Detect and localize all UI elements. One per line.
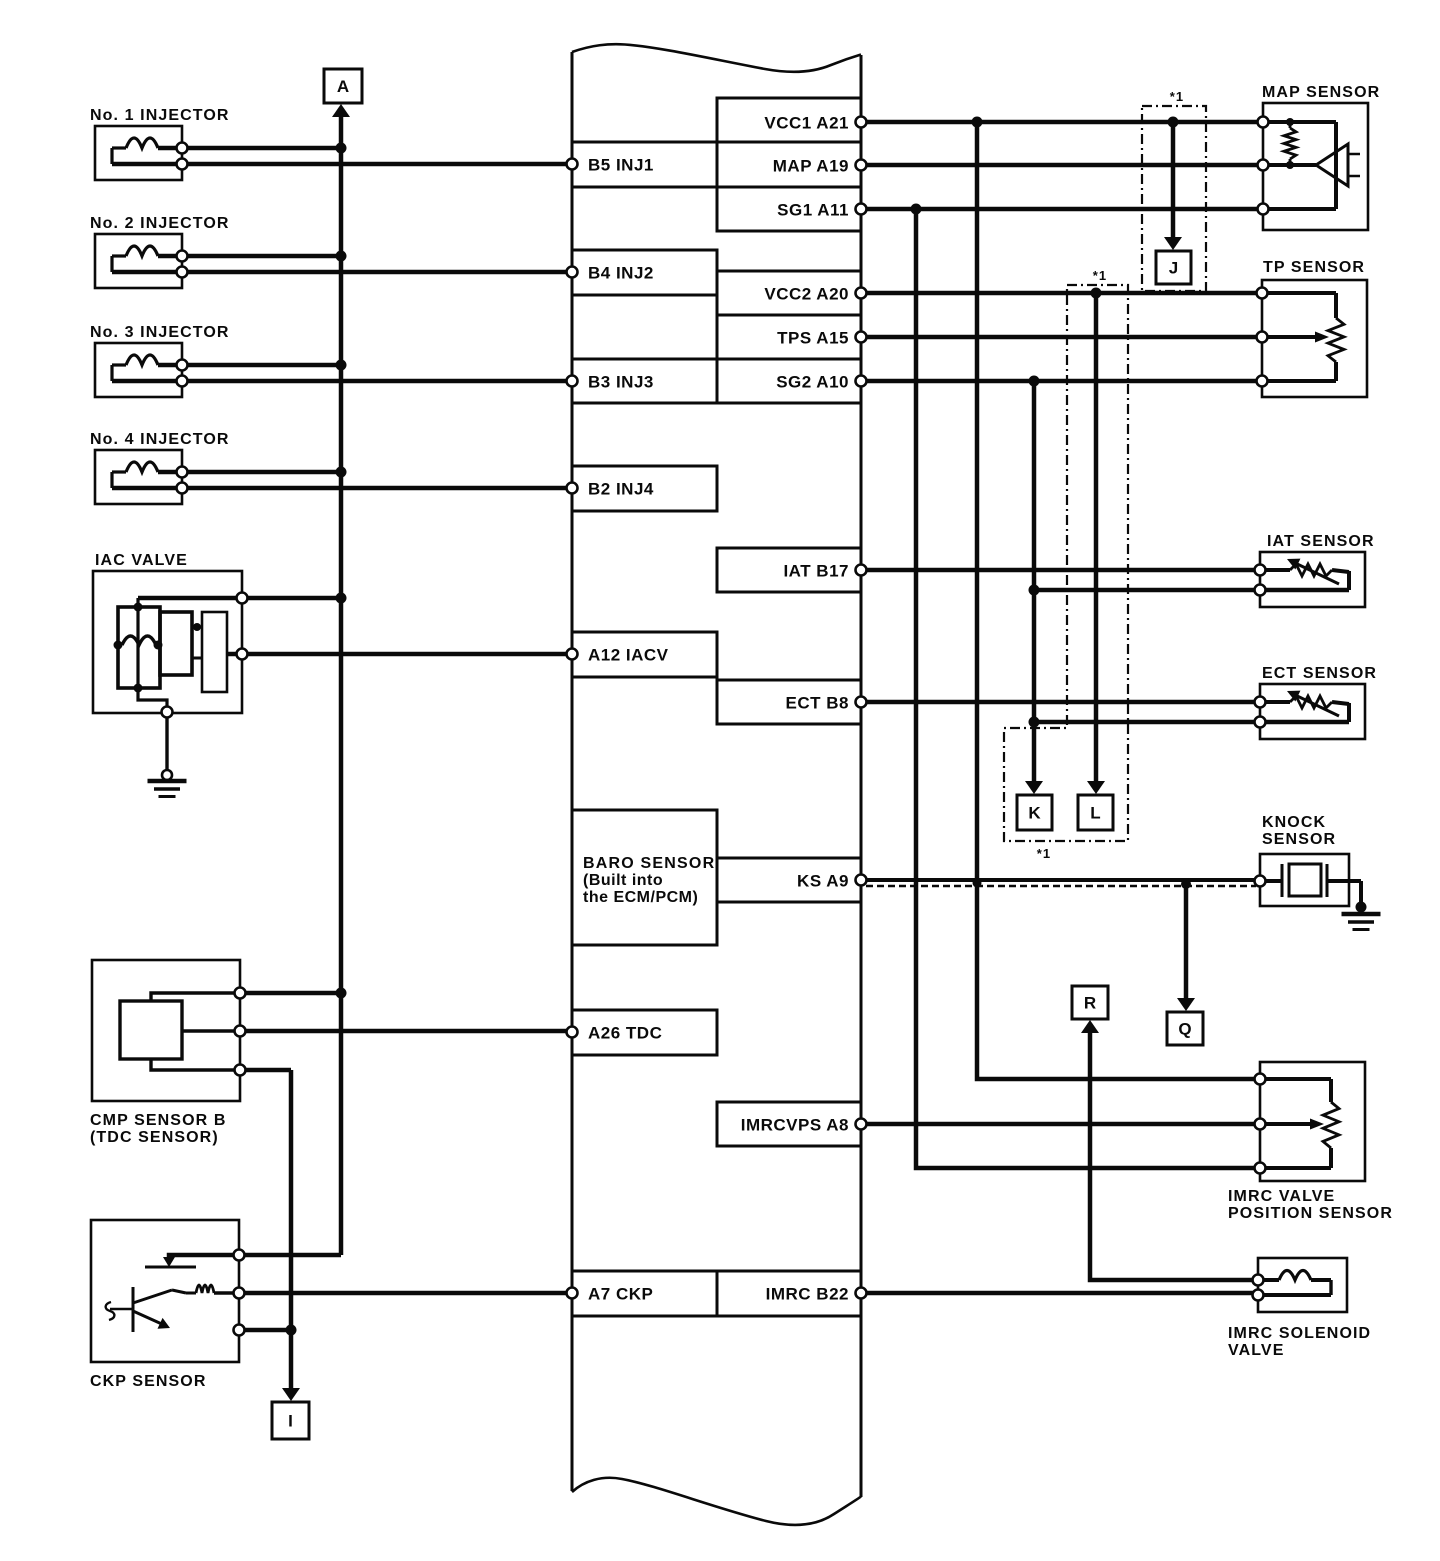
- connector pin cell IMRC B22: [717, 1271, 861, 1316]
- svg-text:BARO SENSOR: BARO SENSOR: [583, 855, 715, 872]
- junction shield / VCC1 drop line crossing: [973, 879, 982, 888]
- connector pin cell MAP A19: [717, 142, 861, 187]
- arrow into node R box: [1081, 1020, 1099, 1033]
- svg-text:No. 2 INJECTOR: No. 2 INJECTOR: [90, 215, 230, 232]
- wire injector 2 ground side to node A bus: [182, 254, 341, 259]
- connector terminal circles left edge: [567, 159, 578, 170]
- amplifier (MAP internal): [1316, 144, 1348, 186]
- svg-text:A7 CKP: A7 CKP: [588, 1285, 653, 1304]
- node I box: [272, 1402, 309, 1439]
- MAP sensor internals: [1266, 120, 1336, 124]
- node A box: [324, 69, 362, 103]
- MAP sensor box: [1263, 103, 1368, 230]
- ground (IAC valve): [162, 770, 172, 780]
- junction injector 3 / node A bus: [336, 360, 347, 371]
- dashed option box *1 (nodes K and L): [1004, 285, 1128, 841]
- arrow into node Q box: [1177, 998, 1195, 1011]
- knock sensor box: [1260, 854, 1349, 906]
- wire SG1 drop to IMRC valve position sensor return: [916, 209, 1255, 1168]
- terminal circles injector 1: [177, 143, 188, 154]
- CKP pickup internals: [169, 1255, 239, 1261]
- svg-text:A26 TDC: A26 TDC: [588, 1024, 662, 1043]
- svg-text:the ECM/PCM): the ECM/PCM): [583, 889, 698, 906]
- node L line (VCC2 feed): [1094, 293, 1099, 783]
- connector pin cell TPS A15: [717, 315, 861, 359]
- svg-text:POSITION SENSOR: POSITION SENSOR: [1228, 1205, 1393, 1222]
- svg-text:K: K: [1028, 804, 1041, 823]
- wire CMP output to pin A26 TDC: [240, 1029, 567, 1034]
- wire injector 1 signal to pin: [112, 162, 567, 167]
- TP terminal circles: [1257, 288, 1268, 299]
- arrow into node K box: [1025, 781, 1043, 794]
- node J line (VCC1 feed): [1171, 122, 1176, 239]
- wire IAT B17 signal: [866, 568, 1255, 573]
- svg-text:IMRCVPS A8: IMRCVPS A8: [741, 1116, 849, 1135]
- svg-text:SENSOR: SENSOR: [1262, 831, 1336, 848]
- svg-text:B4 INJ2: B4 INJ2: [588, 264, 654, 283]
- junction shield / node Q line: [1181, 879, 1191, 889]
- connector pin cell SG1 A11: [717, 187, 861, 231]
- knock sensor piezo internals: [1264, 879, 1282, 883]
- connector pin cell VCC2 A20: [717, 271, 861, 315]
- svg-text:IAT B17: IAT B17: [783, 562, 849, 581]
- svg-text:L: L: [1090, 804, 1100, 823]
- connector pin cell B3 INJ3: [572, 359, 717, 403]
- svg-text:CKP SENSOR: CKP SENSOR: [90, 1373, 207, 1390]
- wire VCC2 A20 to TP sensor: [866, 291, 1257, 296]
- svg-text:A: A: [337, 77, 349, 96]
- wire injector 4 signal to pin: [112, 486, 567, 491]
- connector pin cell IAT B17: [717, 548, 861, 592]
- svg-text:No. 4 INJECTOR: No. 4 INJECTOR: [90, 431, 230, 448]
- IAT sensor thermistor internals: [1265, 568, 1290, 572]
- node R box: [1072, 986, 1108, 1019]
- svg-text:B3 INJ3: B3 INJ3: [588, 373, 654, 392]
- arrow into node I box: [282, 1388, 300, 1401]
- ground (knock sensor): [1356, 902, 1367, 913]
- IMRCVPS potentiometer internals: [1264, 1077, 1331, 1081]
- junction VCC2 / node L line: [1091, 288, 1102, 299]
- junction VCC1 / node J line: [1168, 117, 1179, 128]
- ECT sensor thermistor internals: [1265, 700, 1290, 704]
- node Q box: [1167, 1012, 1203, 1045]
- connector pin cell A7 CKP: [572, 1271, 717, 1316]
- connector pin cell A12 IACV: [572, 632, 717, 677]
- svg-text:Q: Q: [1178, 1020, 1191, 1039]
- ECM/PCM connector band left edge: [571, 52, 574, 1491]
- wire CMP ground to node I line: [240, 1068, 291, 1073]
- wire SG2 A10 to TP sensor: [866, 379, 1257, 384]
- CMP sensor B box: [92, 960, 240, 1101]
- terminal circles injector 3: [177, 360, 188, 371]
- injector No. 2 INJECTOR: [95, 234, 182, 288]
- svg-text:KNOCK: KNOCK: [1262, 814, 1326, 831]
- wire KS A9 (knock signal): [866, 878, 1255, 882]
- wire injector 3 ground side to node A bus: [182, 363, 341, 368]
- ECM/PCM connector band right edge: [860, 55, 863, 1497]
- svg-text:VCC2 A20: VCC2 A20: [764, 285, 849, 304]
- IMRC solenoid valve box: [1258, 1258, 1347, 1312]
- junction IAT return / node K line: [1029, 585, 1040, 596]
- wire CKP top to node A bus corner: [239, 1253, 341, 1258]
- wire IMRCVPS A8 signal: [866, 1122, 1255, 1127]
- wire IAC valve to node A bus: [242, 596, 341, 601]
- connector band torn bottom edge: [572, 1478, 861, 1525]
- svg-text:IMRC VALVE: IMRC VALVE: [1228, 1188, 1335, 1205]
- svg-text:ECT B8: ECT B8: [786, 694, 849, 713]
- svg-text:*1: *1: [1037, 846, 1052, 861]
- wire VCC1 A21 to MAP sensor: [866, 120, 1258, 125]
- svg-text:*1: *1: [1093, 268, 1108, 283]
- wire injector 3 signal to pin: [112, 379, 567, 384]
- terminal circles injector 2: [177, 251, 188, 262]
- node L box: [1078, 795, 1113, 830]
- CKP terminal circles: [234, 1250, 245, 1261]
- arrow into node L box: [1087, 781, 1105, 794]
- wire injector 1 ground side to node A bus: [182, 146, 341, 151]
- junction injector 4 / node A bus: [336, 467, 347, 478]
- connector terminal circles right edge: [856, 117, 867, 128]
- wire ECT B8 signal: [866, 700, 1255, 705]
- wire CKP ground to node I line: [239, 1328, 291, 1333]
- junction injector 2 / node A bus: [336, 251, 347, 262]
- svg-text:KS A9: KS A9: [797, 872, 849, 891]
- CMP sensor element square: [120, 1001, 182, 1059]
- shield wire (knock sensor, dashed): [866, 885, 1256, 887]
- IAC terminal circles: [237, 593, 248, 604]
- IMRCVPS terminal circles: [1255, 1074, 1266, 1085]
- injector No. 3 INJECTOR: [95, 343, 182, 397]
- node K line (sensor ground): [1032, 381, 1037, 783]
- wire injector 4 ground side to node A bus: [182, 470, 341, 475]
- svg-text:MAP SENSOR: MAP SENSOR: [1262, 84, 1380, 101]
- junction injector 1 / node A bus: [336, 143, 347, 154]
- injector No. 1 INJECTOR: [95, 126, 182, 180]
- IMRC solenoid terminal circles: [1253, 1275, 1264, 1286]
- wire VCC1 drop to IMRC valve position sensor: [977, 122, 1255, 1079]
- connector pin cell KS A9: [717, 858, 861, 902]
- junction SG1 / IMRCVPS return: [911, 204, 922, 215]
- junction CKP ground / node I line: [286, 1325, 297, 1336]
- junction ECT return / node K line: [1029, 717, 1040, 728]
- connector pin cell ECT B8: [717, 680, 861, 724]
- terminal circles injector 4: [177, 467, 188, 478]
- svg-text:SG2 A10: SG2 A10: [776, 373, 849, 392]
- svg-text:IAC VALVE: IAC VALVE: [95, 552, 188, 569]
- svg-text:No. 3 INJECTOR: No. 3 INJECTOR: [90, 324, 230, 341]
- node K box: [1017, 795, 1052, 830]
- wire MAP A19 signal: [866, 163, 1258, 168]
- TP sensor box: [1262, 280, 1367, 397]
- svg-text:(Built into: (Built into: [583, 872, 663, 889]
- CMP internals: [151, 993, 240, 1001]
- svg-text:(TDC SENSOR): (TDC SENSOR): [90, 1129, 219, 1146]
- junction VCC1 / IMRCVPS feed: [972, 117, 983, 128]
- svg-text:VALVE: VALVE: [1228, 1342, 1284, 1359]
- svg-text:IMRC SOLENOID: IMRC SOLENOID: [1228, 1325, 1371, 1342]
- svg-text:J: J: [1169, 259, 1178, 278]
- TP potentiometer internals: [1266, 291, 1336, 295]
- resistor (MAP internal): [1289, 122, 1292, 128]
- svg-text:No. 1 INJECTOR: No. 1 INJECTOR: [90, 107, 230, 124]
- wire ECT sensor return to node K line: [1034, 720, 1255, 725]
- arrow into node J box: [1164, 237, 1182, 250]
- svg-text:VCC1 A21: VCC1 A21: [764, 114, 849, 133]
- svg-text:SG1 A11: SG1 A11: [777, 201, 849, 220]
- junction IAC / node A bus: [336, 593, 347, 604]
- IAT sensor box: [1260, 552, 1365, 607]
- IAT sensor terminal circles: [1255, 565, 1266, 576]
- wire IAT sensor return to node K line: [1034, 588, 1255, 593]
- junction SG2 / node K line: [1029, 376, 1040, 387]
- IAC valve outer box: [93, 571, 242, 713]
- IAC valve internals (motor windings): [138, 596, 242, 601]
- connector pin cell IMRCVPS A8: [717, 1102, 861, 1146]
- IAC ground stem: [165, 717, 168, 770]
- BARO sensor block (built into ECM/PCM): [572, 810, 717, 945]
- node R line to IMRC solenoid: [1090, 1031, 1253, 1280]
- svg-text:A12 IACV: A12 IACV: [588, 646, 669, 665]
- connector pin cell A26 TDC: [572, 1010, 717, 1055]
- svg-text:R: R: [1084, 994, 1096, 1013]
- wire SG1 A11 to MAP sensor: [866, 207, 1258, 212]
- svg-text:I: I: [288, 1412, 293, 1431]
- arrow into node A box: [332, 104, 350, 117]
- svg-text:MAP A19: MAP A19: [773, 157, 849, 176]
- node Q line: [1184, 884, 1189, 1000]
- knock sensor terminal circle: [1255, 876, 1266, 887]
- wire injector 2 signal to pin: [112, 270, 567, 275]
- ECT sensor box: [1260, 684, 1365, 739]
- CMP terminal circles: [235, 988, 246, 999]
- svg-text:IAT SENSOR: IAT SENSOR: [1267, 533, 1375, 550]
- dashed option box *1 (node J): [1142, 106, 1206, 291]
- connector pin cell B5 INJ1: [572, 142, 717, 187]
- wire IMRC B22 to solenoid valve: [866, 1291, 1253, 1296]
- injector No. 4 INJECTOR: [95, 450, 182, 504]
- wire TPS A15 signal: [866, 335, 1257, 340]
- svg-text:B5 INJ1: B5 INJ1: [588, 156, 654, 175]
- wire CKP output to pin A7 CKP: [239, 1291, 567, 1296]
- junction CMP / node A bus: [336, 988, 347, 999]
- svg-text:TPS A15: TPS A15: [777, 329, 849, 348]
- svg-text:*1: *1: [1170, 89, 1185, 104]
- IMRC valve position sensor box: [1260, 1062, 1365, 1181]
- connector pin cell B4 INJ2: [572, 250, 717, 295]
- MAP terminal circles: [1258, 117, 1269, 128]
- connector band torn top edge: [572, 44, 861, 72]
- connector pin cell SG2 A10: [717, 359, 861, 403]
- IMRC solenoid coil: [1262, 1278, 1279, 1282]
- svg-text:IMRC B22: IMRC B22: [766, 1285, 849, 1304]
- svg-text:B2 INJ4: B2 INJ4: [588, 480, 654, 499]
- connector pin cell B2 INJ4: [572, 466, 717, 511]
- svg-text:TP SENSOR: TP SENSOR: [1263, 259, 1365, 276]
- connector pin cell VCC1 A21: [717, 98, 861, 142]
- node A vertical bus wire: [339, 114, 344, 1255]
- svg-text:ECT SENSOR: ECT SENSOR: [1262, 665, 1377, 682]
- wire CMP power to node A bus: [240, 991, 341, 996]
- node I vertical wire: [289, 1070, 294, 1390]
- node J box: [1156, 251, 1191, 284]
- svg-text:CMP SENSOR B: CMP SENSOR B: [90, 1112, 226, 1129]
- CKP sensor box: [91, 1220, 239, 1362]
- wire IAC valve to pin A12 IACV: [242, 652, 567, 657]
- ECT sensor terminal circles: [1255, 697, 1266, 708]
